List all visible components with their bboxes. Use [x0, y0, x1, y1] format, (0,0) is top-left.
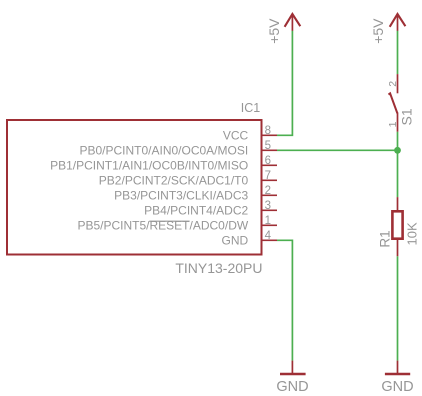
svg-text:2: 2: [387, 81, 399, 87]
svg-text:GND: GND: [381, 379, 413, 395]
svg-text:8: 8: [265, 125, 271, 137]
svg-text:1: 1: [265, 215, 271, 227]
svg-text:2: 2: [265, 185, 271, 197]
svg-text:7: 7: [265, 170, 271, 182]
svg-text:PB4/PCINT4/ADC2: PB4/PCINT4/ADC2: [144, 204, 248, 218]
svg-text:S1: S1: [399, 108, 415, 125]
svg-text:1: 1: [387, 121, 399, 127]
svg-text:PB1/PCINT1/AIN1/OC0B/INT0/MISO: PB1/PCINT1/AIN1/OC0B/INT0/MISO: [50, 159, 248, 173]
svg-text:PB2/PCINT2/SCK/ADC1/T0: PB2/PCINT2/SCK/ADC1/T0: [99, 174, 249, 188]
svg-text:+5V: +5V: [370, 18, 386, 44]
svg-text:GND: GND: [222, 234, 249, 248]
svg-text:5: 5: [265, 140, 271, 152]
svg-text:PB3/PCINT3/CLKI/ADC3: PB3/PCINT3/CLKI/ADC3: [114, 189, 248, 203]
svg-text:IC1: IC1: [241, 101, 261, 115]
svg-text:3: 3: [265, 200, 271, 212]
svg-text:PB0/PCINT0/AIN0/OC0A/MOSI: PB0/PCINT0/AIN0/OC0A/MOSI: [79, 144, 248, 158]
svg-text:GND: GND: [276, 379, 308, 395]
svg-text:+5V: +5V: [266, 18, 282, 44]
svg-text:VCC: VCC: [223, 129, 249, 143]
svg-text:10K: 10K: [404, 222, 419, 245]
svg-text:4: 4: [265, 230, 272, 242]
svg-text:R1: R1: [377, 230, 392, 247]
svg-text:6: 6: [265, 155, 271, 167]
svg-text:TINY13-20PU: TINY13-20PU: [175, 260, 262, 276]
